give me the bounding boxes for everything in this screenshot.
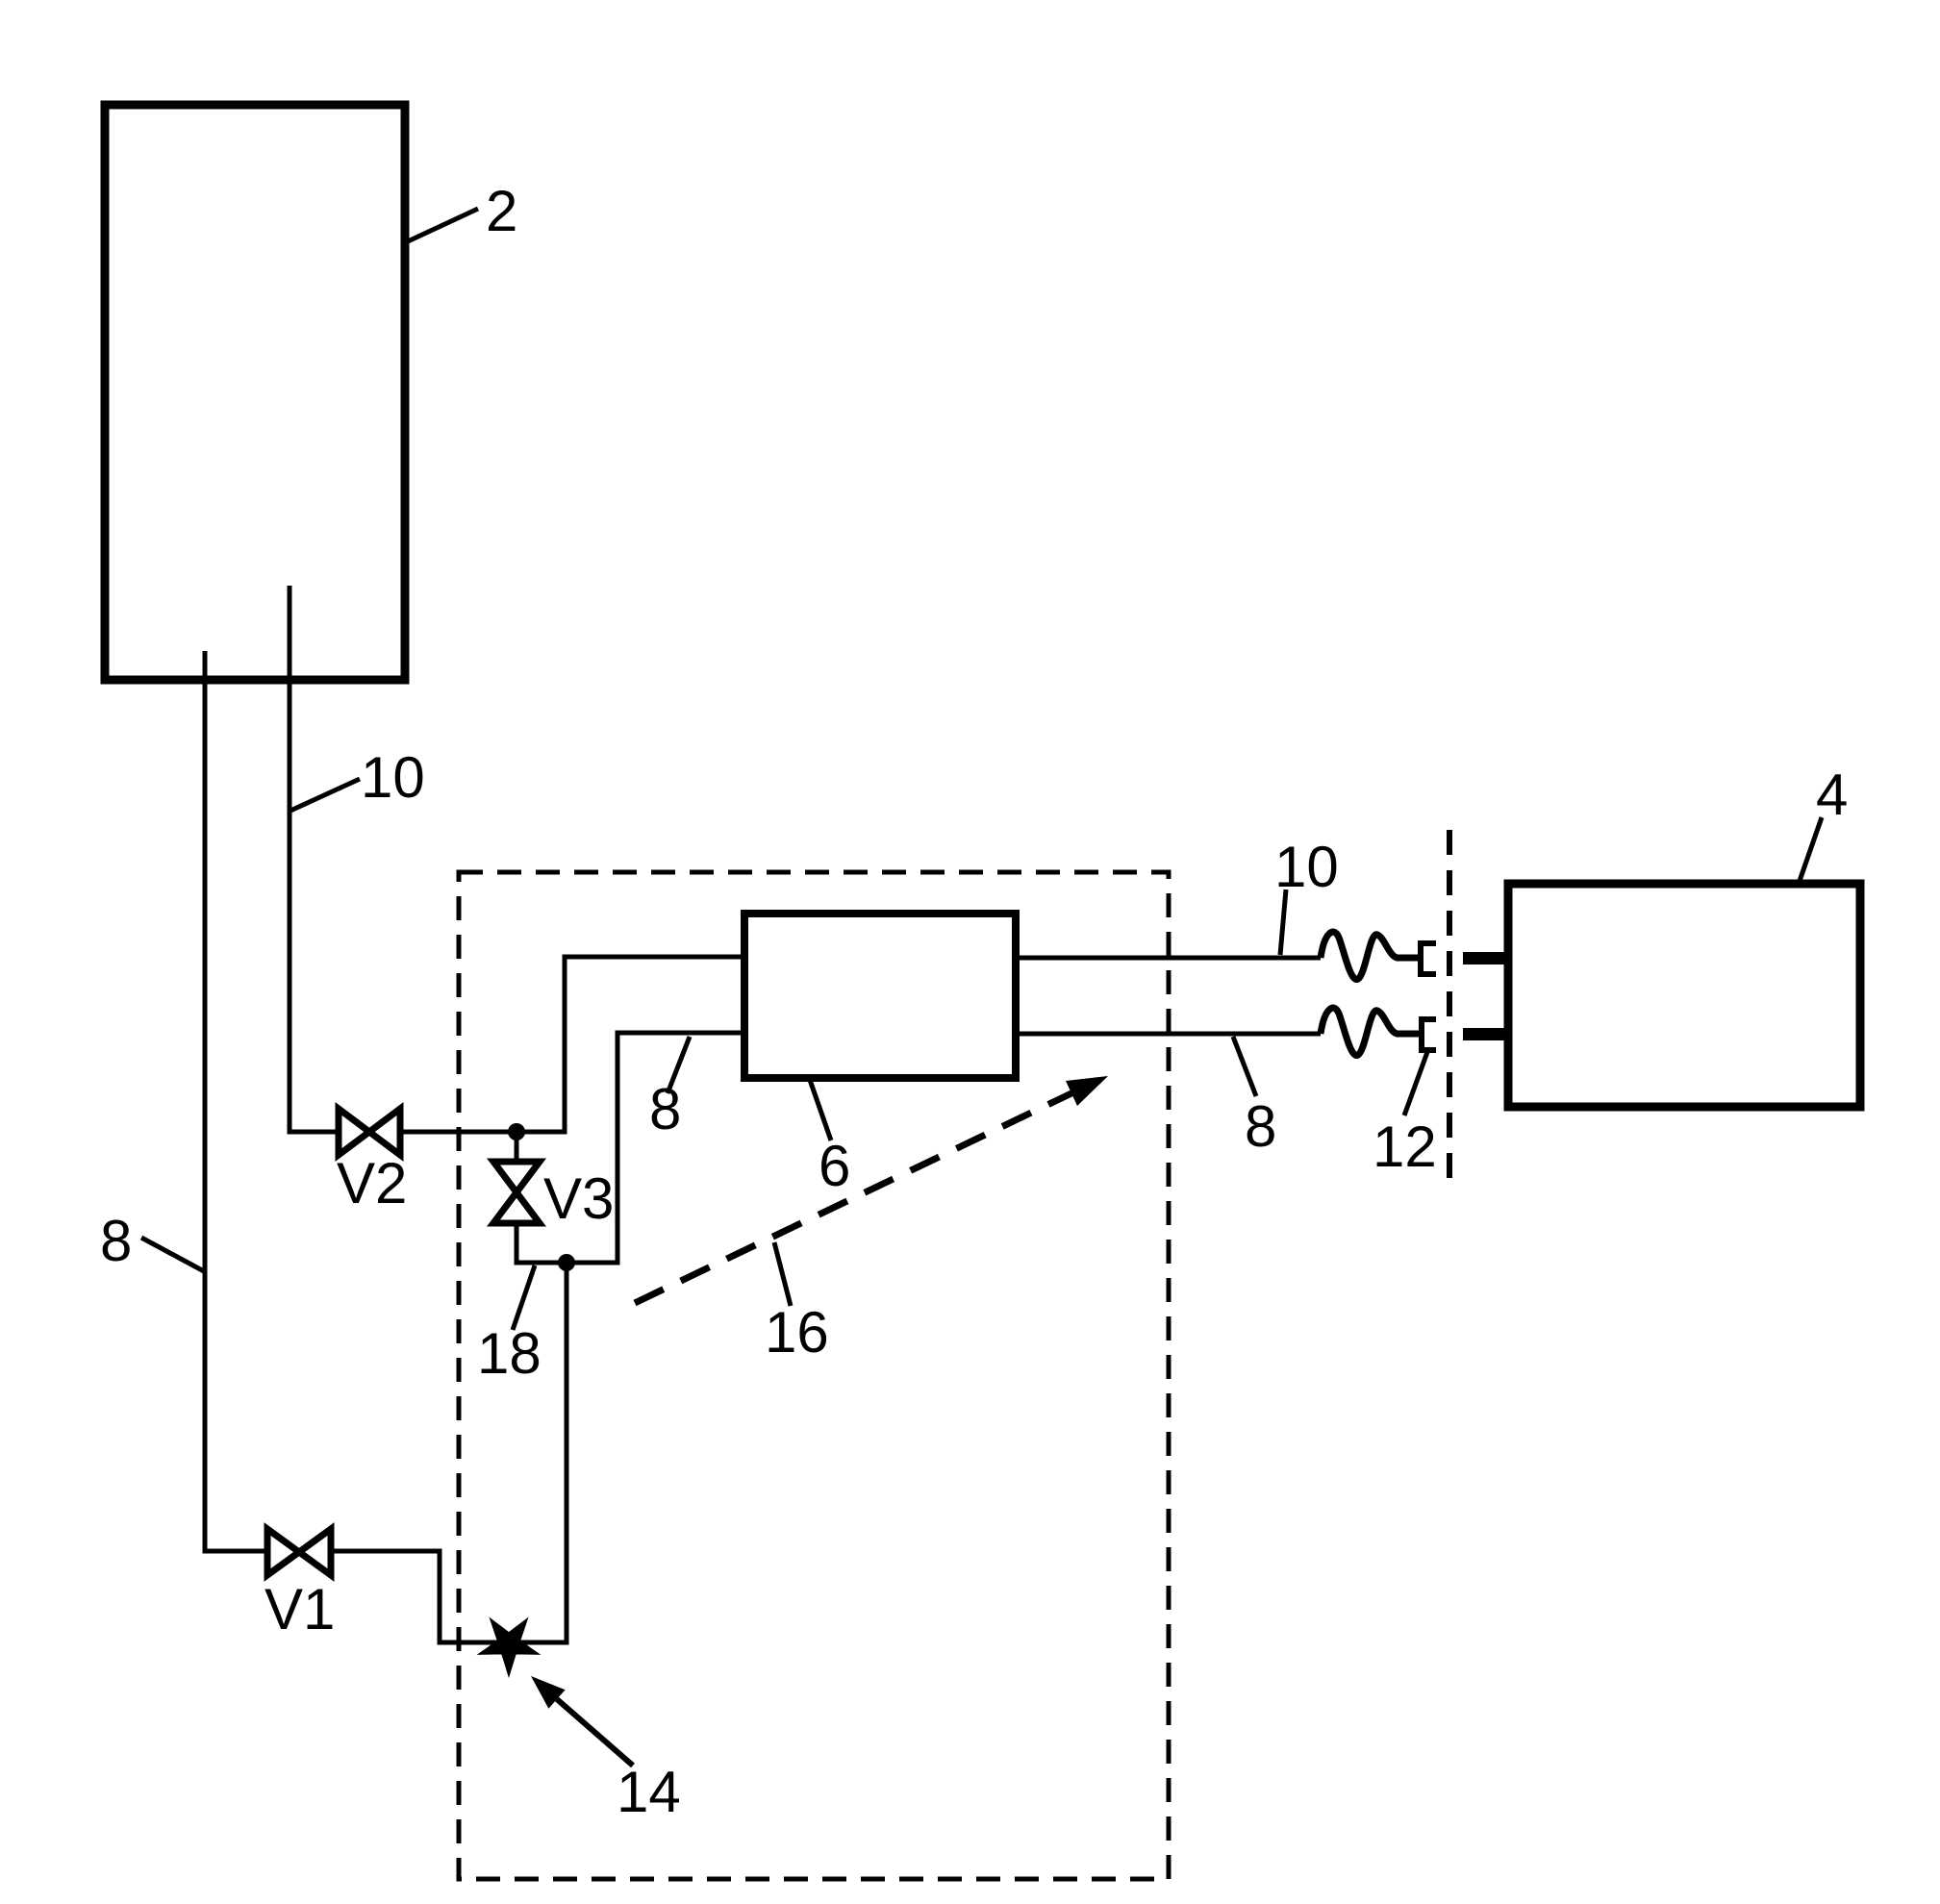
label 8 (right) leader xyxy=(1233,1037,1256,1096)
pin stub lower into device 4 xyxy=(1463,1028,1507,1040)
dashed wall line near device 4 xyxy=(1447,830,1452,1178)
node junction 18 xyxy=(558,1254,575,1271)
svg-text:14: 14 xyxy=(617,1760,681,1824)
wire V3 outlet elbow to riser 8 xyxy=(516,1033,741,1263)
wire pipe 10 from exchanger to flexible hose xyxy=(1016,956,1321,961)
svg-text:12: 12 xyxy=(1373,1115,1437,1179)
label 12 leader xyxy=(1404,1052,1427,1115)
heat exchanger 6 (thick rectangle) xyxy=(744,914,1016,1078)
pin stub upper into device 4 xyxy=(1463,952,1507,965)
svg-text:V3: V3 xyxy=(543,1166,614,1231)
connector bracket on pipe 8 xyxy=(1422,1019,1436,1050)
wire pipe 8 from exchanger to flexible hose xyxy=(1016,1032,1321,1037)
svg-text:10: 10 xyxy=(361,745,425,810)
label 4 leader xyxy=(1800,817,1822,881)
node junction at V2 line xyxy=(508,1123,525,1140)
tank 2 (source vessel, thick rectangle) xyxy=(105,105,405,680)
svg-text:16: 16 xyxy=(765,1300,829,1365)
valve V2 xyxy=(339,1109,400,1155)
svg-text:8: 8 xyxy=(100,1209,132,1273)
svg-text:4: 4 xyxy=(1816,763,1848,827)
label 6 leader xyxy=(810,1080,831,1140)
spray valve 14 (filled star) xyxy=(482,1621,537,1673)
label 2 leader xyxy=(408,209,478,241)
label 14 arrow xyxy=(531,1676,633,1766)
svg-text:V1: V1 xyxy=(265,1577,335,1641)
label 10 (left) leader xyxy=(290,779,360,811)
label 8 (left) leader xyxy=(141,1238,204,1271)
svg-text:2: 2 xyxy=(486,179,517,243)
wire V2 outlet to riser xyxy=(400,957,741,1132)
svg-text:8: 8 xyxy=(1245,1094,1276,1159)
valve V3 (vertical) xyxy=(493,1162,540,1223)
label 10 (right) leader xyxy=(1280,889,1286,955)
wire junction down to valve V3 xyxy=(515,1132,519,1163)
valve V1 xyxy=(267,1529,331,1575)
label 16 leader xyxy=(774,1242,791,1306)
wire pipe 8 drop from tank 2 xyxy=(205,651,267,1551)
svg-text:8: 8 xyxy=(649,1077,681,1141)
label 8 (middle) leader xyxy=(668,1037,690,1093)
wire V1 outlet with step down to spray valve xyxy=(331,1263,567,1642)
dashed arrow 16 xyxy=(635,1076,1108,1303)
svg-text:V2: V2 xyxy=(337,1151,407,1215)
svg-text:10: 10 xyxy=(1274,835,1339,899)
wire pipe 10 drop from tank 2 xyxy=(290,586,339,1132)
dashed enclosure (cryostat boundary) xyxy=(459,872,1169,1879)
svg-text:18: 18 xyxy=(477,1321,542,1386)
flexible hose coil on pipe 8 xyxy=(1321,1008,1419,1055)
connector bracket on pipe 10 xyxy=(1421,943,1436,974)
device 4 (thick rectangle) xyxy=(1508,884,1860,1107)
svg-text:6: 6 xyxy=(819,1134,850,1198)
label 18 leader xyxy=(513,1265,535,1330)
flexible hose coil on pipe 10 xyxy=(1321,932,1419,979)
